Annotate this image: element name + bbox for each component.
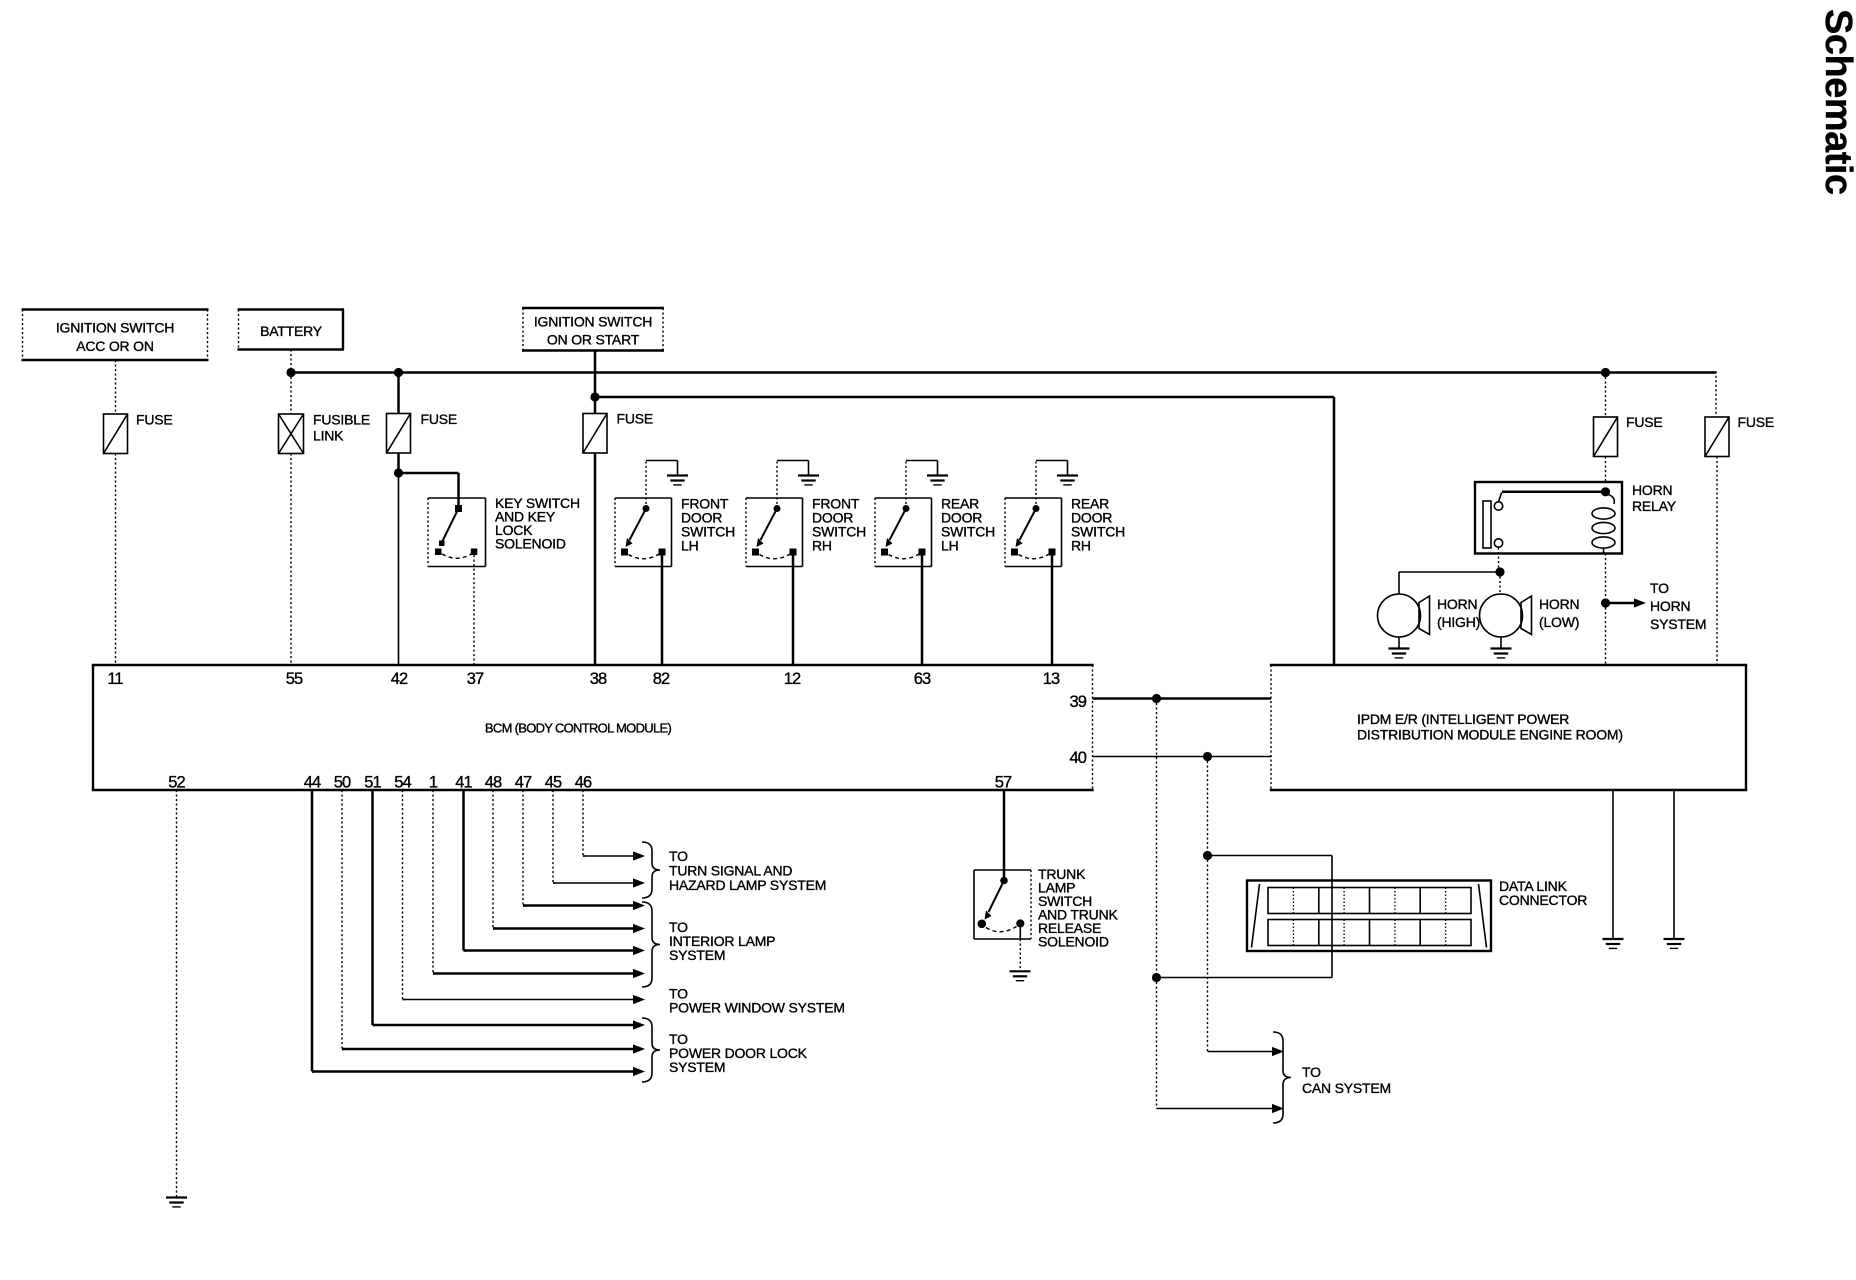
svg-text:ACC OR ON: ACC OR ON [76, 338, 154, 354]
junction: battery at bus [286, 368, 295, 377]
horn (low) H2 [1480, 594, 1532, 637]
svg-text:41: 41 [455, 774, 472, 792]
IGNITION SWITCH ACC OR ON label [56, 320, 174, 355]
svg-text:IGNITION SWITCH: IGNITION SWITCH [534, 314, 652, 330]
svg-text:(HIGH): (HIGH) [1437, 614, 1480, 630]
svg-text:46: 46 [575, 774, 592, 792]
svg-text:FUSE: FUSE [1738, 414, 1775, 430]
fusible link FL [279, 414, 304, 454]
wire: CAN H vertical drop [1156, 699, 1158, 1109]
power source box: IGNITION SWITCH ON OR START [522, 308, 664, 351]
svg-text:42: 42 [391, 670, 408, 688]
wire: branch to key switch (L-shape) [399, 473, 459, 509]
svg-text:52: 52 [168, 774, 185, 792]
TO POWER WINDOW SYSTEM label [669, 986, 845, 1016]
svg-text:LH: LH [681, 538, 699, 554]
wire: horn low to ground [1500, 637, 1502, 649]
wire: IPDM to ground 1 [1612, 790, 1614, 939]
horn relay U1 [1475, 482, 1622, 554]
svg-text:TO: TO [1650, 580, 1669, 596]
wire: BCM pin 47 output [523, 790, 525, 906]
wire: horn high to ground [1398, 637, 1400, 649]
svg-text:47: 47 [515, 774, 532, 792]
arrow: pin 47 to system [523, 904, 633, 907]
wire: horn relay switched output down to IPDM pin [1605, 554, 1607, 666]
TO POWER DOOR LOCK SYSTEM label [669, 1031, 808, 1075]
front door switch LH [615, 498, 672, 567]
wire: rear door switch RH to BCM pin 13 [1051, 556, 1054, 666]
svg-text:HORN: HORN [1650, 598, 1690, 614]
fuse F2 (battery feed) [387, 414, 411, 454]
arrow: pin 1 to system [433, 972, 633, 975]
brace: interior lamp system [642, 902, 660, 987]
TO CAN SYSTEM label [1302, 1064, 1391, 1096]
wire: fuse F5 to IPDM E/R [1716, 457, 1718, 666]
svg-text:BATTERY: BATTERY [260, 323, 323, 339]
wire: BCM pin 44 output [312, 790, 314, 1072]
power source box: IGNITION SWITCH ACC OR ON [22, 310, 209, 361]
arrow: pin 44 to system [312, 1070, 633, 1073]
svg-text:FUSIBLE: FUSIBLE [313, 412, 370, 428]
svg-text:39: 39 [1069, 693, 1086, 711]
svg-text:ON OR START: ON OR START [547, 332, 640, 348]
data link connector label [1499, 878, 1587, 908]
wire: relay contact output down [1498, 548, 1500, 573]
wire: front door switch LH to BCM pin 82 [661, 556, 664, 666]
wire: fuse F3 to BCM pin 38 [594, 453, 597, 665]
svg-text:TO: TO [1302, 1064, 1321, 1080]
svg-text:57: 57 [995, 774, 1012, 792]
IPDM E/R (Intelligent Power Distribution Module Engine Room) U3 [1270, 665, 1747, 790]
svg-text:44: 44 [304, 774, 321, 792]
svg-text:POWER WINDOW SYSTEM: POWER WINDOW SYSTEM [669, 1000, 845, 1016]
wire: bus junction to fuse F2 [397, 373, 400, 414]
svg-text:RH: RH [1071, 538, 1091, 554]
ground: IPDM E/R 2 [1664, 939, 1685, 948]
svg-text:SOLENOID: SOLENOID [1038, 934, 1109, 950]
arrow: pin 54 to system [403, 999, 634, 1001]
svg-text:SYSTEM: SYSTEM [1650, 616, 1706, 632]
svg-text:LINK: LINK [313, 428, 344, 444]
wire: fuse F2 down to key-switch branch junction [397, 453, 400, 473]
wire: fuse F4 to horn relay [1605, 457, 1607, 483]
wire: key switch to BCM pin 37 [473, 555, 475, 665]
arrow: pin 50 to system [342, 1048, 633, 1051]
horn (high) label [1437, 596, 1480, 630]
wire: IPDM to ground 2 [1673, 790, 1675, 939]
wire: front door switch RH to BCM pin 12 [792, 556, 795, 666]
arrow: pin 51 to system [373, 1024, 634, 1027]
rear door switch RH [1005, 498, 1062, 567]
wire: BCM pin 54 output [403, 790, 405, 1000]
svg-text:45: 45 [545, 774, 562, 792]
ground: trunk lamp switch [1010, 971, 1031, 980]
svg-text:SYSTEM: SYSTEM [669, 1059, 725, 1075]
key switch and key lock solenoid SW1 [428, 498, 486, 567]
wire: BCM pin 46 output [583, 790, 585, 856]
svg-text:HORN: HORN [1437, 596, 1477, 612]
fuse F4 (horn relay feed) [1594, 417, 1618, 457]
wire: trunk switch to ground [1019, 927, 1021, 971]
fuse F5 (IPDM feed) [1705, 417, 1729, 457]
svg-text:82: 82 [653, 670, 670, 688]
svg-text:40: 40 [1069, 749, 1086, 767]
wire: junction to BCM pin 42 [398, 473, 400, 665]
horn relay label [1632, 482, 1677, 514]
svg-text:FUSE: FUSE [617, 411, 654, 427]
arrow: TO HORN SYSTEM [1606, 602, 1635, 605]
brace: turn signal and hazard lamp system [642, 842, 660, 898]
wire: ACC box to fuse F1 [115, 360, 117, 414]
front door switch RH label [812, 496, 866, 554]
wire: BCM pin 51 output [373, 790, 375, 1025]
horn (low) label [1539, 596, 1579, 630]
svg-text:Schematic: Schematic [1817, 9, 1856, 195]
rear door switch LH label [941, 496, 995, 554]
svg-text:HAZARD LAMP SYSTEM: HAZARD LAMP SYSTEM [669, 877, 826, 893]
junction: key switch branch [394, 468, 403, 477]
wire: BCM pin 1 output [433, 790, 435, 974]
svg-text:(LOW): (LOW) [1539, 614, 1579, 630]
svg-text:IGNITION SWITCH: IGNITION SWITCH [56, 320, 174, 336]
wire: bus to fuse F4 [1605, 373, 1607, 418]
svg-text:SOLENOID: SOLENOID [495, 536, 566, 552]
wire: junction to fuse F3 [594, 397, 597, 414]
wire: BCM pin 41 output [464, 790, 466, 951]
junction: bus to horn relay fuse F4 [1601, 368, 1610, 377]
svg-text:51: 51 [364, 774, 381, 792]
key switch label [495, 495, 580, 552]
wire: CAN L branch to data link connector [1157, 856, 1333, 978]
wire: ON/START box to junction [594, 351, 597, 398]
svg-text:LH: LH [941, 538, 959, 554]
wire: BCM pin 39 to IPDM (CAN H) [1093, 697, 1272, 700]
svg-text:48: 48 [485, 774, 502, 792]
rear door switch RH ground wire [1036, 461, 1068, 509]
svg-text:FUSE: FUSE [1626, 414, 1663, 430]
rear door switch LH ground [927, 476, 948, 485]
trunk lamp switch and trunk release solenoid SW2 [974, 870, 1031, 939]
svg-text:13: 13 [1043, 670, 1060, 688]
front door switch LH label [681, 496, 735, 554]
wire: horn feed to horn high [1399, 572, 1500, 594]
front door switch LH ground wire [646, 461, 678, 509]
fuse F3 (ignition feed) [583, 414, 607, 454]
svg-text:HORN: HORN [1539, 596, 1579, 612]
svg-text:38: 38 [590, 670, 607, 688]
svg-text:CAN SYSTEM: CAN SYSTEM [1302, 1080, 1391, 1096]
wire: bus to fusible link [290, 373, 292, 415]
svg-text:IPDM E/R (INTELLIGENT POWER: IPDM E/R (INTELLIGENT POWER [1357, 711, 1569, 727]
svg-text:DISTRIBUTION MODULE ENGINE ROO: DISTRIBUTION MODULE ENGINE ROOM) [1357, 727, 1623, 743]
arrow: CAN L to CAN system [1208, 1051, 1273, 1053]
rear door switch RH label [1071, 496, 1125, 554]
rear door switch LH ground wire [906, 461, 938, 509]
svg-text:37: 37 [467, 670, 484, 688]
wire: BCM pin 57 to trunk lamp switch [1003, 790, 1006, 877]
brace: power door lock system [642, 1018, 660, 1082]
wire: battery to bus junction [290, 350, 292, 373]
wire: rear door switch LH to BCM pin 63 [921, 556, 924, 666]
ground: IPDM E/R 1 [1603, 939, 1624, 948]
svg-text:RH: RH [812, 538, 832, 554]
rear door switch RH ground [1057, 476, 1078, 485]
ignition feed bus (horizontal to IPDM) [595, 397, 1334, 665]
svg-text:55: 55 [286, 670, 303, 688]
wire: BCM pin 45 output [553, 790, 555, 883]
TO TURN SIGNAL AND HAZARD LAMP SYSTEM label [669, 848, 826, 893]
ground: horn high [1389, 649, 1410, 658]
power source box: BATTERY [238, 310, 345, 350]
svg-text:12: 12 [784, 670, 801, 688]
TO HORN SYSTEM label [1650, 580, 1706, 632]
arrow: pin 48 to system [493, 927, 633, 930]
junction: horn relay coil to fuse F4 wire [1601, 487, 1610, 496]
front door switch LH ground [667, 476, 688, 485]
corner: battery bus down to fuse F5 [1715, 371, 1717, 417]
junction: CAN L tap [1203, 752, 1212, 761]
svg-text:63: 63 [914, 670, 931, 688]
fuse F1 (ACC feed) [104, 414, 128, 454]
junction: CAN H at DLC return [1152, 973, 1161, 982]
junction: CAN L at DLC branch [1203, 851, 1212, 860]
front door switch RH [746, 498, 803, 567]
wire: BCM pin 48 output [493, 790, 495, 929]
junction: to horn system tap [1601, 598, 1610, 607]
junction: horn feed split [1495, 567, 1504, 576]
label FUSIBLE LINK [313, 412, 370, 444]
svg-text:1: 1 [429, 774, 438, 792]
junction: CAN H tap [1152, 694, 1161, 703]
wire: fusible link to BCM pin 55 [290, 454, 292, 666]
svg-text:HORN: HORN [1632, 482, 1672, 498]
wire: BCM pin 50 output [342, 790, 344, 1049]
ground: BCM pin 52 [166, 1198, 187, 1207]
rear door switch LH [875, 498, 932, 567]
arrow: pin 45 to system [553, 882, 633, 884]
TO INTERIOR LAMP SYSTEM label [669, 919, 775, 963]
svg-text:11: 11 [107, 670, 123, 688]
arrow: pin 41 to system [464, 949, 634, 952]
arrow: CAN H to CAN system [1157, 1108, 1273, 1110]
trunk lamp switch label [1038, 866, 1118, 950]
data link connector J1 [1247, 881, 1491, 952]
BCM (Body Control Module) U2 [92, 665, 1094, 790]
brace: CAN system [1273, 1032, 1291, 1123]
wire: horn feed to horn low [1499, 572, 1501, 594]
svg-text:FUSE: FUSE [136, 412, 173, 428]
horn (high) H1 [1378, 594, 1430, 637]
wire: fuse F1 to BCM pin 11 [115, 454, 117, 666]
svg-text:50: 50 [334, 774, 351, 792]
svg-text:SYSTEM: SYSTEM [669, 947, 725, 963]
front door switch RH ground [798, 476, 819, 485]
wire: CAN L vertical drop [1207, 757, 1209, 1052]
wire: BCM pin 52 to ground [176, 790, 178, 1197]
svg-text:54: 54 [394, 774, 411, 792]
ground: horn low [1491, 649, 1512, 658]
IGNITION SWITCH ON OR START label [534, 314, 652, 348]
battery bus wire (horizontal) [291, 371, 1716, 374]
front door switch RH ground wire [777, 461, 809, 509]
junction: ignition bus [590, 392, 599, 401]
IPDM label [1357, 711, 1623, 743]
wire: BCM pin 40 to IPDM (CAN L) [1093, 756, 1272, 758]
arrow: pin 46 to system [583, 855, 633, 857]
svg-text:BCM (BODY CONTROL MODULE): BCM (BODY CONTROL MODULE) [485, 721, 672, 736]
svg-text:RELAY: RELAY [1632, 498, 1677, 514]
svg-text:CONNECTOR: CONNECTOR [1499, 892, 1587, 908]
svg-text:FUSE: FUSE [421, 411, 458, 427]
junction: bus to fuse F2 branch [394, 368, 403, 377]
